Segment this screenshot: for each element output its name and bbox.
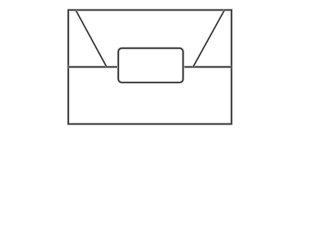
midline wire — [68, 66, 231, 69]
right diagonal wire — [193, 10, 224, 67]
left diagonal wire — [76, 10, 107, 67]
center rounded box — [118, 48, 183, 82]
outer rectangle — [68, 10, 231, 124]
